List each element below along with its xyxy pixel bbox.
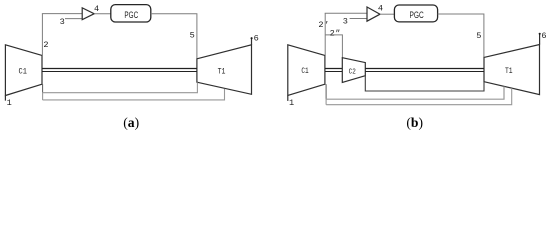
wire fuel line 3b [350,18,367,20]
shaft upper [42,68,197,70]
wire fuel line 3 [65,18,82,20]
svg-text:4: 4 [378,4,383,14]
svg-text:T1: T1 [505,67,513,76]
wire top pipe [42,13,82,15]
wire PGC to turbine b [438,14,484,57]
svg-text:(b): (b) [406,115,423,131]
shaft b seg2 upper [365,68,484,70]
wire riser node2 [41,14,43,55]
svg-text:4: 4 [94,4,99,14]
svg-text:C2: C2 [349,68,357,76]
wire ejector to PGC [94,13,111,15]
turbine T1b [484,45,540,95]
svg-text:2″: 2″ [330,29,340,39]
node 6b tick [539,34,541,45]
svg-text:C1: C1 [19,68,27,77]
svg-text:PGC: PGC [410,10,424,20]
node 6 tick [251,38,253,45]
duct line 1b [326,86,504,99]
svg-text:C1: C1 [301,67,308,76]
duct riser left gray [42,92,44,100]
shaft b seg1 lower [325,71,342,73]
svg-text:1: 1 [7,98,12,108]
svg-text:2′: 2′ [318,20,328,30]
svg-text:3: 3 [343,16,348,26]
node 6 dot [251,37,253,39]
svg-text:6: 6 [541,31,546,41]
duct riser left b dark [325,84,327,99]
wire branch 2'' [325,35,342,58]
duct C2 to T1 [365,76,484,91]
C1 inlet tick [4,96,6,101]
duct line 1 [43,82,198,92]
node 6b dot [539,33,541,35]
ejector b [367,7,380,21]
PGC U1 [111,5,151,22]
duct riser left dark [42,84,44,93]
svg-text:5: 5 [476,31,481,41]
svg-text:(a): (a) [123,115,139,131]
turbine T1 [197,45,252,95]
svg-text:6: 6 [254,33,259,43]
wire ejector to PGC b [380,13,394,15]
svg-text:T1: T1 [218,68,226,77]
duct line 2b [326,88,512,105]
wire PGC to turbine [151,14,197,59]
duct riser left b gray [325,99,327,105]
wire riser node 2' [324,13,326,55]
compressor C1b [288,45,325,96]
shaft b seg1 upper [325,68,342,70]
svg-text:2: 2 [43,40,48,50]
C1b inlet tick [287,96,289,101]
shaft lower [42,71,197,73]
svg-text:3: 3 [60,17,65,27]
compressor C2 [342,58,365,83]
PGC U2 [394,5,437,22]
svg-text:1: 1 [289,98,294,108]
ejector [82,8,94,20]
svg-text:5: 5 [190,30,195,40]
svg-text:PGC: PGC [124,10,138,20]
duct line 2 [43,89,225,100]
shaft b seg2 lower [365,71,484,73]
wire top pipe b [325,12,367,14]
compressor C1 [5,45,42,96]
